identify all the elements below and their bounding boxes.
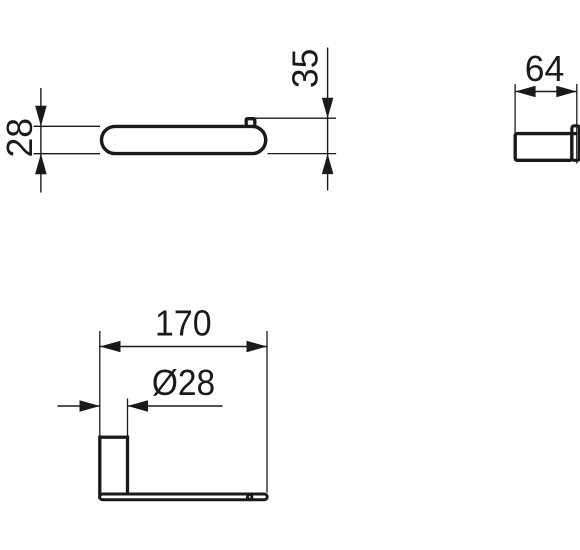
svg-text:170: 170 [155, 302, 212, 343]
dimension d28 left leader with arrow (pointing right) [58, 405, 101, 407]
front view: extension line right (170 dim) [266, 331, 268, 493]
end view: extension line right (64 dim, through plate slit) [576, 84, 578, 164]
dimension d28 right leader with arrow (pointing left) [128, 405, 223, 407]
arrowhead 64 left (pointing left) [515, 86, 536, 98]
arrowhead 35 top (pointing down) [322, 98, 334, 119]
svg-text:28: 28 [0, 118, 40, 158]
arrowhead d28 left (pointing right at arm left edge) [80, 400, 101, 412]
side view: extension line bottom-right (35 dim, bar bottom edge) [268, 153, 337, 155]
end view: bar top edge continuing through plate [570, 132, 577, 135]
dimension line 170 (horizontal) [100, 346, 267, 348]
arrowhead d28 right (pointing left at arm right edge) [128, 400, 149, 412]
side view: bar body (stadium outline) [102, 126, 266, 153]
side view: extension line bottom-left (28 dim, bar bottom edge) [34, 153, 101, 155]
dimension line 35 (vertical, right) [327, 48, 329, 191]
arrowhead 28 bottom (pointing up) [35, 154, 47, 175]
arrowhead 170 right (pointing right) [247, 341, 268, 353]
arrowhead 170 left (pointing left) [100, 341, 121, 353]
front view: extension line left (170 dim) [99, 331, 101, 437]
dimension line 28 (vertical, left) [40, 88, 42, 193]
end view: wall plate [572, 126, 580, 161]
end view: bar cross-section body [515, 134, 572, 161]
side view: extension line top-left (28 dim, bar top edge) [34, 125, 101, 127]
front view: extension line right of arm (d28 dim) [127, 399, 129, 438]
arrowhead 64 right (pointing right) [556, 86, 577, 98]
svg-text:Ø28: Ø28 [152, 362, 215, 403]
arrowhead 35 bottom (pointing up) [322, 154, 334, 175]
end view: extension line left (64 dim) [514, 84, 516, 134]
svg-text:64: 64 [525, 48, 565, 89]
svg-text:35: 35 [285, 49, 326, 89]
front view: fixing pin circle on rail [247, 495, 252, 500]
dimension line 64 (horizontal) [515, 91, 577, 93]
front view: roll-holder arm [100, 437, 128, 497]
arrowhead 28 top (pointing down) [35, 106, 47, 127]
side view: extension line top-right (35 dim, nub top) [255, 117, 336, 119]
front view: wall rail (long stadium) [100, 494, 268, 500]
side view: mounting nub on bar top [246, 119, 255, 130]
